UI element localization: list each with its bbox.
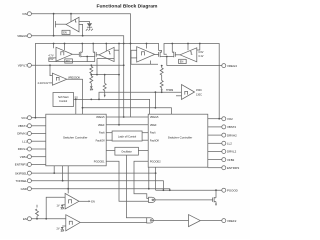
pin LL1 (22, 139, 31, 143)
pin VO2 (222, 117, 233, 121)
wire A1 supply drops (53, 44, 55, 49)
svg-text:4.2V/4.0V: 4.2V/4.0V (38, 82, 49, 85)
wire comp1 output arrow EN (79, 200, 95, 203)
wire box1 bottom drops (53, 166, 55, 173)
wire osc links (106, 149, 115, 151)
svg-text:4.7V: 4.7V (48, 55, 53, 58)
EN tab of U1 (62, 30, 70, 34)
svg-text:PGOOD2: PGOOD2 (150, 160, 161, 163)
svg-text:SKIPSEL: SKIPSEL (15, 171, 27, 175)
comparator U7 (EN1, with hysteresis) (65, 193, 79, 209)
wire VREF link between boxes (106, 124, 148, 126)
svg-text:PGOOD: PGOOD (227, 188, 238, 192)
svg-text:Switcher Controller: Switcher Controller (63, 135, 87, 139)
svg-text:FaultOff: FaultOff (150, 139, 159, 142)
comparator U2 (A1, 4.7V/4.5V, apex right) (48, 47, 72, 63)
pin EN (23, 217, 31, 221)
wire rail A (VO1 top rail) (35, 44, 158, 118)
transistor F4 (167, 44, 176, 66)
pin VREG5 (left) (17, 34, 31, 38)
pin VREG3 (right) (222, 64, 237, 68)
pin VIN (left top) (22, 12, 31, 16)
transistor Q2 PGOOD open drain (156, 190, 222, 206)
pin DRVL2 (222, 150, 237, 154)
pin GND (21, 187, 32, 191)
wire EN to comp2 (31, 218, 65, 220)
switcher controller box 2 (148, 114, 208, 167)
wire THRM line (99, 89, 182, 99)
comparator U6 (thermal shutdown) (176, 85, 202, 100)
svg-text:Switcher Controller: Switcher Controller (168, 135, 192, 139)
pin VBST2 (222, 125, 237, 129)
wire SS line (74, 97, 150, 115)
transistor F2 (87, 44, 96, 62)
wire TONSEL rail (31, 181, 163, 191)
svg-text:VFB1: VFB1 (20, 155, 28, 159)
gate G2 (147, 218, 189, 223)
svg-text:ENTRIP2: ENTRIP2 (227, 166, 240, 170)
wire VIN feed to U1 (70, 14, 72, 22)
wire box1 drop to comp1 (67, 166, 69, 194)
oscillator box (115, 147, 138, 155)
svg-text:3.6V: 3.6V (198, 51, 203, 54)
svg-text:ENTRIP1: ENTRIP1 (15, 163, 28, 167)
svg-text:VREG3: VREG3 (227, 64, 237, 68)
pin VBST1 (18, 124, 32, 128)
transistor F1 (79, 44, 87, 58)
svg-text:DRVL1: DRVL1 (18, 147, 28, 151)
resistor R1 chain (VREF divider left) (90, 65, 93, 90)
buffer U9 (VREF2) (189, 215, 222, 227)
zener diode D1 at VREG5 (79, 22, 93, 31)
svg-text:VBST2: VBST2 (227, 125, 237, 129)
transistor F3 (159, 51, 167, 58)
wire rail B (VO2 top rail) (164, 44, 219, 119)
wire VREG5 to drop (31, 36, 123, 117)
resistor R4 EN pullup (36, 205, 39, 219)
pin DRVH1 (17, 132, 31, 136)
op-amp U1 5V LDO error amp (apex left) (66, 17, 83, 35)
svg-text:V5FILT: V5FILT (18, 64, 27, 68)
switcher controller box 1 (46, 114, 106, 166)
op-amp U3 (A2 switchover, apex left) (96, 44, 114, 62)
wire VREG3 output (167, 65, 222, 67)
svg-text:DRVH2: DRVH2 (227, 133, 237, 137)
svg-text:VREG5: VREG5 (150, 116, 159, 119)
soft start control box (53, 93, 74, 107)
svg-text:VREF2: VREF2 (227, 219, 237, 223)
wire A2 loop right (118, 44, 120, 125)
svg-text:LL1: LL1 (22, 139, 27, 143)
pin VFB2 (222, 158, 235, 162)
svg-text:3.1V: 3.1V (198, 55, 203, 58)
svg-text:FaultOff: FaultOff (96, 139, 105, 142)
op-amp U5 (A4 VREG3 LDO, apex left) (175, 44, 203, 64)
wire VREG5OK to box1 (67, 79, 83, 114)
svg-text:Fault: Fault (99, 132, 105, 135)
wire fault links right (142, 132, 148, 134)
comparator U8 (EN2, with hysteresis) (66, 215, 80, 231)
wire A3 output to F3 gate (155, 53, 159, 55)
svg-text:EN: EN (180, 61, 184, 64)
svg-text:DRVH1: DRVH1 (17, 132, 27, 136)
svg-text:2V: 2V (56, 228, 59, 231)
pin DRVH2 (222, 133, 237, 137)
wire mid link line (83, 108, 172, 114)
wire A3 supply drops (146, 44, 148, 49)
wire V5FILT rail (31, 64, 123, 66)
svg-text:PGOOD1: PGOOD1 (94, 160, 105, 163)
comparator U4 (V5FILT UVLO 4.2V/4.0V) (38, 65, 81, 85)
wire SKIPSEL rail (31, 172, 155, 174)
wire comp1 input A (46, 197, 65, 219)
pin SKIPSEL (15, 171, 31, 175)
comparator A3 (3.3V LDO error amp, apex right) (137, 47, 155, 62)
wire G1 bottom feedback (49, 61, 95, 63)
svg-text:Fault: Fault (150, 132, 156, 135)
resistor R3 chain (right divider) (160, 66, 163, 92)
gate G1 (PGOOD and-gate) (149, 197, 213, 202)
wire osc drop to gate2 (126, 155, 146, 218)
svg-text:TONSEL: TONSEL (15, 179, 27, 183)
svg-text:DRVL2: DRVL2 (227, 150, 237, 154)
svg-text:VREF: VREF (98, 124, 105, 127)
svg-text:VREF: VREF (150, 124, 157, 127)
pin VFB1 (20, 155, 32, 159)
wire THRM drop to mid link (154, 92, 156, 108)
resistor R2 chain (right tap) (91, 75, 119, 98)
pin VREF2 (222, 219, 237, 223)
svg-text:VBST1: VBST1 (18, 124, 28, 128)
svg-text:130C: 130C (196, 93, 202, 96)
wire A1 output to F1 gate (72, 53, 79, 55)
svg-text:VIN: VIN (22, 12, 27, 16)
svg-text:1V: 1V (56, 205, 59, 208)
diode D3 ref for comp2 (56, 226, 65, 232)
svg-text:THRM: THRM (166, 89, 173, 92)
wire G2 bottom feedback (131, 50, 137, 64)
transistor Q1 pass FET of 5V LDO (54, 14, 66, 36)
svg-text:VREG5: VREG5 (17, 34, 27, 38)
wire VREG5 link between boxes (106, 116, 148, 118)
pin LL2 (222, 141, 232, 145)
pin TONSEL (15, 179, 31, 183)
diode D2 ref for comp1 (56, 205, 65, 210)
svg-text:VO2: VO2 (227, 117, 233, 121)
svg-text:EN: EN (91, 200, 95, 203)
wire GND rail (31, 189, 169, 191)
wire comp2 output to gate2 (80, 221, 147, 223)
svg-text:150C: 150C (196, 89, 202, 92)
pin ENTRIP1 (15, 163, 32, 167)
pin PGOOD (222, 188, 238, 192)
svg-text:EN: EN (63, 32, 67, 35)
svg-text:LL2: LL2 (227, 142, 232, 146)
pin VO1 (21, 116, 31, 120)
latch off control box (112, 131, 142, 141)
svg-text:Oscillator: Oscillator (121, 151, 132, 154)
svg-text:VO1: VO1 (21, 116, 27, 120)
pin ENTRIP2 (222, 166, 240, 170)
svg-text:Latch off Control: Latch off Control (118, 135, 137, 138)
svg-text:GND: GND (21, 187, 27, 191)
wire PGOOD1 to gate1 (106, 161, 148, 201)
svg-text:VREG5: VREG5 (96, 116, 105, 119)
wire fault links left (106, 132, 112, 134)
svg-text:Soft Start: Soft Start (58, 96, 69, 99)
wire PGOOD2 to gate1 (134, 161, 149, 198)
svg-text:EN: EN (23, 217, 27, 221)
svg-text:Functional Block Diagram: Functional Block Diagram (97, 3, 159, 9)
pin V5FILT (left) (18, 63, 32, 67)
wire VIN rail (31, 14, 130, 117)
svg-text:Control: Control (59, 100, 68, 103)
svg-text:VFB2: VFB2 (227, 158, 235, 162)
pin DRVL1 (18, 147, 32, 151)
